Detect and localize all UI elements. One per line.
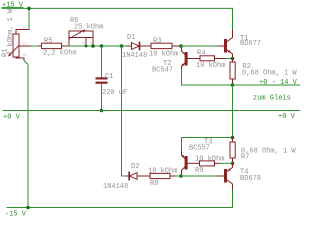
potentiometer R1 — [8, 30, 31, 61]
svg-text:10 kOhm: 10 kOhm — [195, 156, 224, 164]
wire C1 bottom to 0V rail — [101, 84, 103, 111]
svg-text:R7: R7 — [241, 154, 249, 162]
wire C1 top — [101, 46, 103, 77]
svg-text:R3: R3 — [153, 38, 161, 46]
svg-text:R8: R8 — [150, 180, 158, 188]
resistor R7 — [230, 138, 235, 164]
svg-text:220 uF: 220 uF — [102, 89, 127, 97]
svg-text:BD677: BD677 — [240, 40, 261, 48]
svg-text:R9: R9 — [195, 167, 203, 175]
node junction R7 top — [231, 136, 235, 140]
node junction R6 end A — [91, 44, 95, 48]
wire T1 collector to +15V rail — [232, 8, 234, 30]
node junction at +15V rail / R1 — [27, 7, 31, 11]
wire +15V rail — [2, 7, 233, 9]
supply +15V label — [2, 2, 24, 10]
node junction R3 / T1 base / T2 collector — [179, 44, 183, 48]
resistor R9 — [200, 161, 221, 166]
svg-text:1N4148: 1N4148 — [103, 183, 128, 191]
svg-text:C1: C1 — [105, 73, 113, 81]
wire output down to lower half — [232, 85, 234, 138]
svg-text:1N4148: 1N4148 — [122, 52, 147, 60]
node junction T1 emitter / R4 / R2 top — [231, 57, 235, 61]
svg-text:10 kOhm: 10 kOhm — [196, 62, 225, 70]
wire node to T4 base — [181, 175, 218, 177]
diode D2 — [127, 172, 151, 179]
svg-text:E: E — [66, 42, 69, 46]
wire node to T1 base — [181, 45, 218, 47]
wire main node y=46 — [69, 45, 127, 47]
svg-text:10 kOhm: 10 kOhm — [149, 51, 178, 59]
svg-text:0,68 Ohm, 1 W: 0,68 Ohm, 1 W — [242, 70, 297, 78]
transistor T2 BC547 — [181, 48, 198, 71]
trimmer R6 — [69, 30, 93, 47]
svg-text:R4: R4 — [197, 50, 205, 58]
resistor R3 — [151, 43, 181, 48]
wire output to right edge — [233, 84, 301, 86]
svg-text:R5: R5 — [44, 38, 52, 46]
node junction output / R2 bottom — [231, 83, 235, 87]
resistor R8 — [150, 173, 176, 178]
svg-text:+0 - 14 V: +0 - 14 V — [259, 79, 298, 87]
capacitor C1 — [96, 77, 108, 83]
node junction left rail / -15V — [26, 206, 30, 210]
resistor R5 — [39, 43, 70, 48]
node junction C1 top — [100, 44, 104, 48]
svg-text:BD678: BD678 — [240, 175, 261, 183]
transistor T4 BD678 — [218, 163, 233, 190]
transistor T3 BC557 — [181, 151, 199, 176]
wire T3 emitter rail — [182, 138, 233, 152]
wire R1 wiper to R5 — [31, 45, 39, 47]
svg-text:1A: 1A — [22, 54, 27, 58]
svg-text:BC547: BC547 — [152, 67, 173, 75]
svg-text:D2: D2 — [131, 163, 139, 171]
wire T2 emitter to output rail — [182, 70, 233, 85]
svg-text:1S: 1S — [22, 42, 27, 46]
svg-text:25 kOhm: 25 kOhm — [74, 24, 103, 32]
resistor R4 — [198, 56, 226, 61]
wire 0V rail — [3, 110, 300, 112]
wire R8 to node — [176, 175, 181, 177]
svg-text:10 kOhm: 10 kOhm — [148, 168, 177, 176]
node junction D2 branch — [120, 44, 124, 48]
node junction R8 / T3 collector / T4 base — [179, 174, 183, 178]
svg-text:+0 V: +0 V — [3, 114, 21, 122]
svg-text:BC557: BC557 — [189, 145, 210, 153]
resistor R2 — [230, 59, 235, 86]
svg-text:1E: 1E — [22, 27, 27, 31]
wire from +15V rail down to R1 top — [28, 8, 30, 29]
svg-text:+0 V: +0 V — [278, 113, 296, 121]
wire R9 to R7 bottom node — [220, 162, 233, 164]
node junction R7 bottom / T4 emitter / R9 — [231, 162, 235, 166]
diode D1 — [127, 42, 151, 49]
wire T4 collector to -15V rail — [7, 190, 233, 208]
svg-text:zum Gleis: zum Gleis — [253, 95, 291, 103]
svg-text:2,2 kOhm: 2,2 kOhm — [43, 50, 77, 58]
wire R1 bottom down left side to -15V rail — [24, 61, 28, 208]
wire R4 to R2 top node — [226, 58, 233, 60]
wire node down to T2 collector — [181, 46, 183, 49]
svg-text:D1: D1 — [127, 34, 135, 42]
svg-text:1 kOhm, 1 W: 1 kOhm, 1 W — [7, 8, 15, 55]
node junction R6 wiper — [85, 45, 88, 48]
transistor T1 BD677 — [218, 30, 233, 59]
svg-text:-15 V: -15 V — [5, 211, 27, 219]
node junction C1 / 0V rail — [100, 109, 104, 113]
wire branch down to D2 — [122, 46, 127, 176]
